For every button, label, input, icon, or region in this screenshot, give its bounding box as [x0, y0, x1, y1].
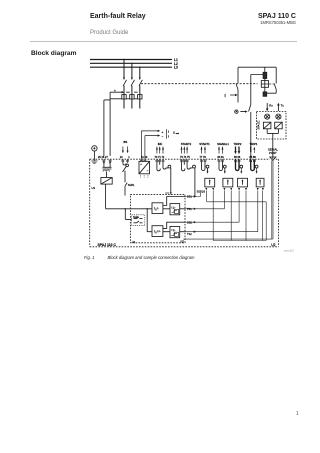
svg-text:70 71 72: 70 71 72: [155, 156, 165, 159]
svg-text:U: U: [173, 130, 175, 134]
svg-text:>>: >>: [157, 230, 161, 234]
svg-text:SS1: SS1: [187, 195, 192, 199]
svg-text:I/O: I/O: [181, 240, 185, 244]
svg-text:Tx: Tx: [281, 103, 285, 107]
svg-text:START1: START1: [199, 142, 210, 146]
svg-text:85 86: 85 86: [250, 156, 257, 159]
svg-text:TRIP2: TRIP2: [234, 142, 242, 146]
svg-text:−: −: [162, 135, 164, 139]
svg-text:IRF: IRF: [158, 142, 163, 146]
svg-text:PORT: PORT: [269, 151, 277, 155]
svg-text:10: 10: [120, 156, 123, 159]
svg-text:START2: START2: [181, 142, 192, 146]
svg-text:1: 1: [128, 156, 130, 159]
svg-text:SPA-ZC: SPA-ZC: [257, 120, 260, 129]
svg-text:TS1: TS1: [187, 207, 192, 211]
svg-text:I: I: [225, 93, 226, 98]
svg-text:73 74 75: 73 74 75: [180, 156, 190, 159]
svg-text:65 66: 65 66: [234, 156, 241, 159]
svg-text:SGR: SGR: [133, 216, 138, 219]
svg-text:BS: BS: [124, 140, 128, 144]
svg-text:L3: L3: [174, 66, 178, 70]
svg-text:aux: aux: [176, 133, 179, 135]
svg-text:SGR1/3: SGR1/3: [197, 190, 206, 193]
svg-text:TS2: TS2: [187, 232, 192, 236]
svg-text:SGB1: SGB1: [128, 184, 135, 187]
svg-text:>: >: [157, 207, 159, 211]
svg-text:25 26 27: 25 26 27: [98, 156, 108, 159]
svg-text:61 60: 61 60: [141, 156, 148, 159]
svg-text:SIGNAL1: SIGNAL1: [217, 142, 229, 146]
svg-text:SS2: SS2: [187, 220, 192, 224]
svg-text:SPAJ 110 C: SPAJ 110 C: [98, 243, 117, 247]
svg-text:77 78: 77 78: [200, 156, 207, 159]
svg-text:Rx: Rx: [269, 103, 273, 107]
svg-text:U1: U1: [132, 240, 136, 244]
svg-text:U2: U2: [271, 243, 275, 247]
svg-text:t ▷: t ▷: [172, 228, 177, 232]
svg-text:TRIP1: TRIP1: [250, 142, 258, 146]
svg-text:saea110: saea110: [284, 249, 295, 253]
svg-text:+: +: [162, 130, 164, 134]
svg-text:80 81: 80 81: [218, 156, 225, 159]
svg-text:U3: U3: [92, 186, 96, 190]
svg-text:t ▷: t ▷: [172, 205, 177, 209]
